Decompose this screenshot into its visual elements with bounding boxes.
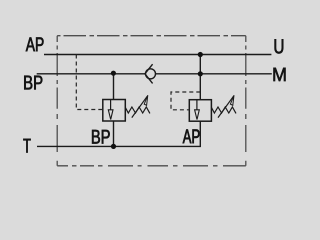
node junction dot T x V1 [111,144,116,149]
relief valve V1 internal arrow [108,110,113,120]
node junction dot M x V2 [198,71,203,76]
wire T line [37,121,200,146]
relief valve V2 internal arrow [195,110,200,120]
wire AP/U line [44,54,271,56]
check valve CV1 ball [146,69,156,79]
relief valve V1 internal flow line [110,100,112,111]
node junction dot AP x V2 [198,52,203,57]
wire BP/M line right of check valve [156,73,272,75]
node label BP (inner, at V1 outlet) [92,130,110,144]
relief valve V2 body [189,100,211,122]
pilot line V1 (dashed from AP) [76,55,103,110]
relief valve V1 spring [125,107,150,113]
enclosure border top edge (dash-dot) [57,35,246,37]
wire valve V2 supply drop from U through M [199,55,201,100]
port label BP (left) [24,76,42,90]
node junction dot BP x V1 [111,71,116,76]
relief valve V1 adjust arrow shaft [132,96,148,117]
relief valve V2 adjust arrow shaft [218,96,234,117]
relief valve V1 body [103,100,126,122]
relief valve V2 spring [211,107,236,113]
node label AP (inner, at V2 outlet) [183,130,200,144]
relief valve V2 internal flow line [196,100,198,110]
wire BP/M line left of check valve [37,73,146,75]
relief valve V2 adjust arrowhead [230,95,234,105]
enclosure border bottom edge (dash-dot) [57,165,246,167]
check valve CV1 seat chevron [145,64,153,83]
wire valve V1 inlet drop from BP [113,74,115,100]
enclosure border left edge (dash-dot) [56,36,58,166]
relief valve V1 adjust arrowhead [144,95,148,105]
pilot line V2 (dashed loop from supply) [171,92,200,110]
wire valve V1 outlet to T [113,121,115,146]
port label AP (top left) [26,38,44,52]
port label U (top right) [275,39,284,53]
port label M (right) [274,68,286,81]
port label T (bottom left) [23,139,30,153]
enclosure border right edge (dash-dot) [245,36,247,166]
